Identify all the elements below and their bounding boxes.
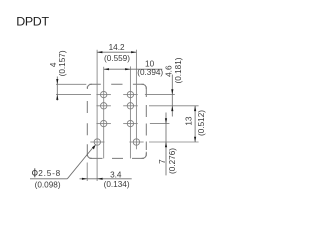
svg-text:14.2: 14.2 [109, 43, 125, 52]
dim line 10 [104, 68, 163, 70]
pin holes [94, 91, 139, 145]
inner column 1 centerline [103, 67, 105, 159]
row1 crosshair col2 [123, 94, 138, 96]
row3 crosshair col1 [96, 123, 111, 125]
row3 crosshair col2 [123, 123, 138, 125]
svg-text:(0.559): (0.559) [104, 54, 130, 63]
svg-text:(0.098): (0.098) [35, 180, 61, 189]
thin lines: extensions / centerlines [56, 50, 199, 181]
svg-text:(0.276): (0.276) [168, 148, 177, 174]
right pin column centerline (through bottom-right hole) [135, 50, 137, 150]
svg-text:4: 4 [49, 62, 58, 67]
hole row1 col1 [101, 91, 107, 97]
corner bottom-right [142, 152, 147, 159]
arrow 4 bottom (outside, points up) [56, 95, 58, 100]
svg-text:4.6: 4.6 [164, 65, 173, 77]
row2 crosshair col2 [123, 105, 138, 107]
row2 crosshair col1 [96, 105, 111, 107]
dim line 13 [194, 106, 196, 142]
dim line 3.4 [80, 178, 132, 180]
arrow 7 top (outside, points down) [165, 118, 167, 123]
svg-text:13: 13 [185, 116, 194, 126]
leader underline phi 2.5-8 [30, 178, 67, 180]
row2 extension to right [149, 105, 199, 107]
arrow 10 right [125, 68, 130, 70]
arrow 4 top (outside, points down) [56, 79, 58, 84]
hole bottom right [133, 139, 139, 145]
arrow leader tip at hole [92, 145, 96, 150]
dimension texts [32, 43, 206, 189]
top edge extension to left [56, 83, 86, 85]
svg-text:(0.157): (0.157) [58, 50, 67, 76]
hole row3 col1 [101, 120, 107, 126]
bottom row crosshair right hole [129, 141, 143, 143]
arrow 14.2 left [97, 51, 102, 53]
arrow 14.2 right [131, 51, 136, 53]
arrow 13 bottom (inside, points down) [194, 137, 196, 142]
label phi symbol [32, 168, 37, 177]
hole row1 col2 [127, 91, 133, 97]
svg-text:DPDT: DPDT [16, 14, 49, 28]
row1 crosshair col1 [96, 94, 111, 96]
arrow 13 top (inside, points up) [194, 106, 196, 111]
dim line 4.6 [171, 75, 173, 117]
row1 extension to left [56, 94, 91, 96]
hole row2 col2 [127, 103, 133, 109]
hole row2 col1 [101, 103, 107, 109]
dim line 4 [56, 77, 58, 101]
svg-text:7: 7 [158, 159, 167, 164]
dim line 14.2 [97, 51, 136, 53]
bottom row extension to right [149, 141, 199, 143]
top edge dashes [90, 83, 145, 85]
3.4 left extension (body edge extended) [86, 163, 88, 182]
bottom edge dashes [90, 157, 145, 159]
corner top-right [142, 84, 147, 89]
dim line 7 [165, 113, 167, 176]
svg-text:(0.181): (0.181) [174, 57, 183, 83]
row3 extension to right [150, 123, 170, 125]
hole row3 col2 [127, 120, 133, 126]
arrow 3.4 left (outside) [82, 178, 87, 180]
inner column 2 centerline [129, 66, 131, 158]
dimension lines [30, 52, 195, 179]
right edge dashes [145, 87, 147, 157]
svg-text:(0.512): (0.512) [197, 110, 206, 136]
hole bottom left [94, 139, 100, 145]
arrowheads [56, 51, 196, 180]
left pin column centerline (through bottom-left hole) [96, 50, 98, 181]
corner bottom-left [87, 154, 92, 159]
svg-text:(0.134): (0.134) [104, 180, 130, 189]
arrow 10 left [104, 68, 109, 70]
row1 extension to right [145, 94, 175, 96]
left edge dashes [86, 87, 88, 157]
arrow 4.6 top (outside, points down) [171, 89, 173, 94]
svg-text:3.4: 3.4 [110, 171, 122, 180]
bottom row crosshair left hole [90, 141, 104, 143]
arrow 4.6 bottom (outside, points up) [171, 106, 173, 111]
leader diagonal to bottom-left hole [67, 146, 94, 179]
arrow 3.4 right (outside) [97, 178, 102, 180]
svg-text:(0.394): (0.394) [137, 68, 163, 77]
relay body dashed outline (phantom) [87, 84, 146, 158]
corner top-left [87, 84, 92, 89]
arrow 7 bottom (outside, points up) [165, 142, 167, 147]
svg-text:2.5-8: 2.5-8 [38, 169, 61, 178]
